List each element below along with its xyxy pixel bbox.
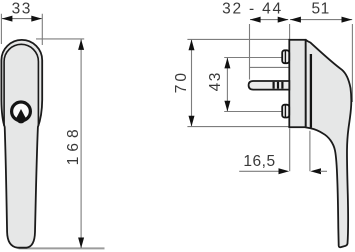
dimension 70 arrow down	[189, 116, 195, 127]
dimension 168 top extension line	[36, 38, 84, 40]
dimension 51 arrow right	[342, 17, 353, 23]
dimension 16,5 arrow left-pointing	[310, 168, 321, 174]
reference line above spindle	[250, 66, 291, 68]
dimension 43 dimension line	[226, 58, 228, 111]
spindle rib 3	[281, 82, 283, 89]
dimension 16,5 dimension line left part	[239, 170, 280, 172]
svg-text:51: 51	[311, 0, 329, 17]
dimension 16,5 arrow right-pointing	[279, 168, 290, 174]
dimension 168 dimension line	[80, 39, 82, 247]
side view plate (rosette)	[289, 40, 305, 127]
dimension 16,5 left extension line	[289, 128, 291, 171]
side view grip rear silhouette line	[310, 54, 312, 128]
screw M1 head split line	[284, 51, 286, 64]
svg-text:33: 33	[12, 0, 32, 17]
lock cylinder ring	[12, 102, 31, 121]
dimension 33 arrow right	[31, 16, 42, 22]
spindle (square pin)	[249, 81, 290, 90]
screw M2 (bottom) head	[282, 105, 289, 118]
dimension 32-44 left extension line (to spindle tip)	[249, 24, 251, 80]
dimension 168 arrow up	[78, 39, 84, 50]
dimension 70 bottom extension line	[187, 126, 288, 128]
dimension 43 top extension line	[224, 57, 282, 59]
svg-text:168: 168	[65, 124, 82, 165]
dimension 51 right extension line	[351, 24, 353, 102]
lock keyhole	[16, 109, 25, 123]
screw M1 (top) head	[282, 50, 289, 63]
dimension 33 arrow left	[2, 16, 13, 22]
front view grip inner contour	[4, 44, 38, 126]
svg-text:32 - 44: 32 - 44	[222, 0, 283, 17]
dimension 51 dimension line	[290, 19, 352, 21]
dimension 43 bottom extension line	[224, 111, 282, 113]
dimension 168 arrow down	[78, 238, 84, 249]
svg-text:70: 70	[173, 70, 190, 93]
dimension 16,5 right extension line	[309, 131, 311, 171]
dimension 33 extension lines	[1, 14, 42, 45]
dimension 32-44 dimension line	[250, 19, 288, 21]
screw M2 head split line	[284, 105, 286, 117]
dimension 16,5 dimension line right part	[320, 170, 327, 172]
dimension 33 dimension line	[2, 18, 42, 20]
dimension 43 arrow down	[224, 101, 230, 112]
dimension 70 arrow up	[189, 40, 195, 51]
side view grip and neck body	[306, 40, 352, 247]
dimension 70 top extension line	[187, 38, 290, 40]
dimension 51 arrow left	[290, 17, 301, 23]
front view handle body outline	[1, 40, 42, 248]
dimension 32-44 / 51 shared extension line (plate face)	[289, 24, 291, 39]
dimension 32-44 arrow right	[278, 17, 289, 23]
svg-text:43: 43	[207, 71, 224, 91]
dimension 43 arrow up	[224, 58, 230, 69]
spindle rib 1	[273, 82, 275, 89]
spindle rib 2	[277, 82, 279, 89]
dimension 168 bottom extension (ground) line	[19, 247, 105, 249]
svg-text:16,5: 16,5	[243, 153, 275, 170]
dimension 70 dimension line	[191, 40, 193, 127]
dimension 32-44 arrow left	[250, 17, 261, 23]
